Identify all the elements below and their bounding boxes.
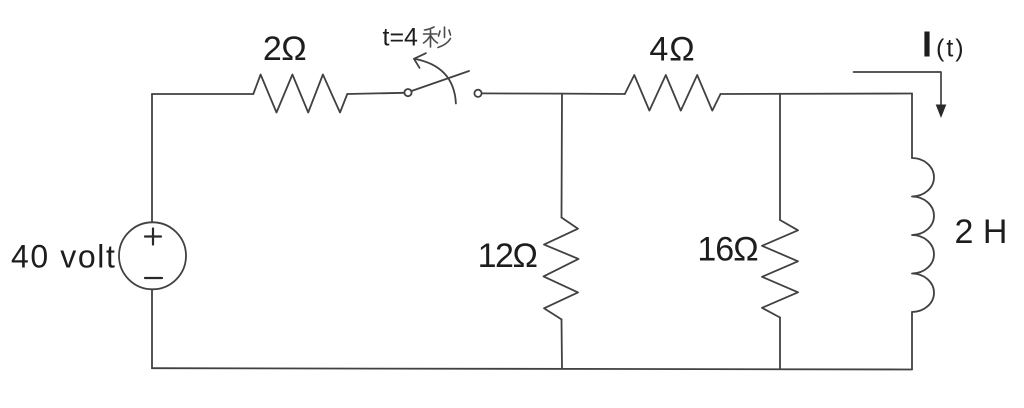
wire 12Ω branch bottom — [561, 319, 564, 368]
wire switch to node A — [482, 92, 562, 94]
switch S1 throw contact — [474, 90, 481, 97]
resistor R3 12Ω — [544, 218, 579, 320]
switch S1 motion arc arrow — [414, 53, 456, 103]
voltage source V1 — [119, 222, 186, 289]
wire 16Ω branch top — [779, 94, 781, 220]
svg-text:t=4: t=4 — [383, 24, 419, 52]
resistor R2 4Ω — [625, 75, 721, 111]
wire right vertical above inductor — [911, 94, 913, 159]
inductor L1 2H — [912, 158, 934, 312]
wire 2Ω to switch — [347, 93, 404, 94]
current arrow I(t) — [854, 72, 947, 118]
svg-text:2Ω: 2Ω — [263, 30, 306, 68]
switch S1 pole contact — [404, 89, 411, 96]
wire 4Ω to top right corner — [721, 93, 913, 96]
wire below inductor — [911, 312, 913, 369]
wire left vertical top — [151, 94, 153, 222]
switch S1 arm — [412, 71, 470, 91]
wire top left — [152, 93, 253, 95]
wire 16Ω branch bottom — [779, 318, 781, 370]
resistor R4 16Ω — [762, 220, 798, 318]
svg-text:40 volt: 40 volt — [11, 239, 116, 275]
svg-text:2 H: 2 H — [955, 213, 1008, 251]
svg-text:16Ω: 16Ω — [697, 231, 757, 269]
svg-text:I: I — [922, 24, 932, 65]
svg-text:(t): (t) — [936, 35, 966, 63]
wire 12Ω branch top — [561, 94, 564, 218]
svg-text:4Ω: 4Ω — [649, 31, 695, 69]
resistor R1 2Ω — [253, 75, 347, 113]
label 秒 (drawn glyph) — [424, 27, 451, 48]
wire bottom rail — [152, 368, 912, 369]
wire node A to 4Ω — [562, 93, 625, 95]
wire left vertical bottom — [151, 289, 153, 368]
svg-text:12Ω: 12Ω — [478, 237, 537, 275]
